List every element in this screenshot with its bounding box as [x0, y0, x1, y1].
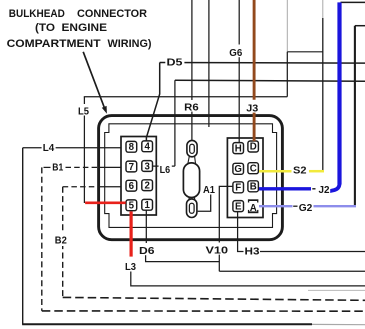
- svg-text:D: D: [250, 142, 257, 153]
- wire L5 left riser: [83, 97, 85, 203]
- wire G2 black dash: [293, 205, 297, 207]
- pin 3: [142, 161, 153, 172]
- pin C: [248, 163, 259, 174]
- svg-text:A1: A1: [203, 184, 215, 196]
- wire faint gray right-bottom: [308, 289, 365, 291]
- wire L6 riser: [174, 80, 176, 166]
- wire L4 bottom frame: [22, 323, 312, 325]
- wire lavender G2 right: [314, 205, 357, 207]
- pin G: [233, 163, 244, 174]
- wire red vertical below pin 5: [130, 211, 133, 256]
- svg-text:L5: L5: [78, 106, 89, 118]
- wire L5 horizontal: [84, 96, 287, 98]
- svg-text:2: 2: [145, 181, 150, 192]
- svg-text:7: 7: [129, 162, 134, 173]
- pin 8: [126, 141, 137, 152]
- wire blue J2 horizontal: [259, 187, 311, 190]
- svg-text:R6: R6: [184, 102, 199, 114]
- wire yellow S2 left: [259, 170, 292, 173]
- wire L4 vertical left frame: [22, 148, 24, 325]
- wire B1 solid into connector: [100, 166, 121, 168]
- wire L5 right riser: [286, 52, 288, 97]
- wire J2 black dash: [312, 188, 315, 190]
- wire B1 dashed horizontal: [66, 166, 101, 168]
- svg-text:H3: H3: [245, 246, 260, 258]
- keyway top ring: [187, 140, 197, 156]
- wire blue J2 corner stub: [330, 184, 340, 192]
- wire D5 riser to pin 4: [146, 63, 159, 142]
- svg-text:8: 8: [129, 142, 135, 153]
- wire G6 vertical to pin H: [238, 0, 240, 143]
- wire V10 lower riser: [218, 255, 220, 272]
- keyway middle oval A1: [183, 163, 199, 198]
- wire B2 dashed bottom: [63, 297, 365, 300]
- svg-text:L6: L6: [160, 164, 171, 176]
- svg-text:D5: D5: [167, 57, 183, 69]
- wire D6 from pin 1: [145, 210, 147, 243]
- wire brown J3 upper: [253, 0, 256, 100]
- svg-text:B1: B1: [52, 162, 63, 174]
- svg-text:1: 1: [145, 200, 151, 211]
- wire L6 horizontal: [175, 80, 365, 81]
- pin H: [233, 143, 244, 154]
- wire L6 tick from pin 3: [153, 165, 175, 167]
- svg-text:CONNECTOR: CONNECTOR: [77, 8, 147, 20]
- bulkhead connector outer shell: [99, 116, 283, 240]
- callout arrow: [83, 52, 104, 108]
- svg-text:COMPARTMENT: COMPARTMENT: [7, 38, 101, 50]
- wire A1 pointer: [198, 195, 211, 212]
- pin D: [248, 141, 259, 152]
- wire D6 lower bracket: [146, 255, 220, 262]
- svg-text:ENGINE: ENGINE: [62, 22, 108, 34]
- right pin block: [227, 138, 263, 218]
- wire B1 dash before label: [44, 166, 51, 168]
- pin 4: [142, 141, 153, 152]
- wire V10 horizontal out: [219, 270, 365, 272]
- svg-text:F: F: [235, 183, 241, 194]
- wire link to S2 riser: [287, 51, 323, 53]
- svg-text:D6: D6: [139, 245, 155, 257]
- wire faint vertical above S2 riser: [322, 0, 324, 18]
- wire blue J2 vertical: [337, 2, 341, 184]
- svg-text:3: 3: [145, 161, 151, 172]
- wire brown J3 lower to pin D: [253, 112, 256, 141]
- wire G2 riser: [354, 26, 356, 207]
- svg-text:L4: L4: [43, 142, 55, 154]
- svg-text:B: B: [250, 182, 257, 193]
- wire L4 bottom gray tail: [312, 323, 365, 325]
- wire red from pin 5 left: [85, 202, 126, 205]
- wire B2 solid into connector: [100, 186, 121, 188]
- svg-text:C: C: [250, 163, 257, 174]
- wire B2 dashed horizontal: [63, 186, 100, 188]
- wire G2 top out: [355, 25, 365, 27]
- pin 7: [126, 161, 137, 172]
- svg-text:(TO: (TO: [35, 22, 55, 34]
- wire B1 dashed bottom: [42, 310, 365, 312]
- wire B1 dashed vertical: [41, 167, 43, 311]
- svg-text:G: G: [234, 164, 242, 175]
- wire B2 dashed vertical: [62, 187, 64, 298]
- wire R6 vertical to keyway: [191, 0, 193, 141]
- pin B: [248, 181, 259, 192]
- svg-text:G2: G2: [299, 202, 313, 214]
- left pin block: [121, 137, 156, 216]
- wire lavender G2 left: [259, 205, 293, 207]
- pin 1: [142, 199, 153, 210]
- svg-text:S2: S2: [293, 165, 307, 177]
- pin F: [233, 182, 244, 193]
- svg-text:G6: G6: [229, 47, 242, 59]
- wire S2 riser: [322, 18, 324, 171]
- svg-text:H: H: [235, 143, 242, 154]
- pin 5: [126, 200, 137, 211]
- svg-text:A: A: [250, 203, 257, 214]
- pin A: [248, 199, 259, 201]
- wire H3 horizontal out: [260, 251, 365, 253]
- label knockout backgrounds: [77, 104, 91, 116]
- wire V10 from pin F: [219, 186, 233, 242]
- pin E: [233, 201, 244, 212]
- bulkhead connector inner outline: [105, 124, 277, 228]
- wire J2 top out: [341, 1, 365, 3]
- svg-text:WIRING): WIRING): [108, 38, 152, 50]
- svg-text:5: 5: [129, 201, 135, 212]
- pin 2: [142, 180, 153, 191]
- keyway neck upper: [188, 156, 189, 163]
- wire yellow S2 right: [309, 170, 324, 173]
- keyway neck lower: [188, 197, 191, 200]
- svg-text:L3: L3: [125, 261, 136, 273]
- svg-text:V10: V10: [206, 245, 229, 257]
- wire A1 vertical from top: [208, 0, 210, 127]
- svg-text:J2: J2: [319, 184, 330, 196]
- wire L3 bracket out: [131, 272, 365, 286]
- pin 6: [126, 180, 137, 191]
- svg-text:6: 6: [129, 181, 135, 192]
- svg-text:B2: B2: [55, 235, 67, 247]
- svg-text:J3: J3: [246, 103, 258, 115]
- svg-text:BULKHEAD: BULKHEAD: [9, 8, 65, 20]
- wire D5 horizontal: [160, 62, 365, 65]
- svg-text:E: E: [235, 201, 242, 212]
- svg-text:4: 4: [145, 142, 151, 153]
- wire L4 horizontal: [23, 147, 122, 149]
- wire H3 from pin E: [238, 212, 244, 252]
- keyway bottom ring: [187, 199, 197, 218]
- wire faint vertical above L5 riser: [286, 0, 288, 52]
